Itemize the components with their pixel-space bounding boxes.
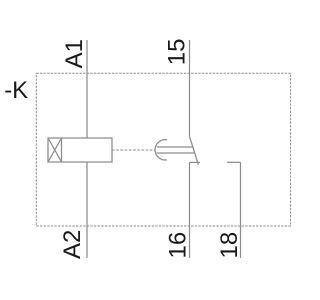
- contact 18 fixed bar: [227, 161, 241, 163]
- svg-text:15: 15: [164, 39, 191, 66]
- wire 15 lead: [189, 40, 191, 137]
- wire 18 lead: [240, 162, 242, 258]
- contact arm (switch, from 15): [190, 137, 199, 165]
- svg-text:18: 18: [216, 232, 243, 259]
- coil X diagonal 2: [48, 138, 62, 162]
- actuator link line bottom: [157, 152, 195, 154]
- coil X diagonal 1: [48, 138, 62, 162]
- svg-text:16: 16: [165, 232, 192, 259]
- wire A2 lead: [86, 162, 88, 258]
- wire 16 lead: [189, 162, 191, 258]
- svg-text:A1: A1: [61, 39, 88, 68]
- actuator link line top: [157, 146, 193, 148]
- relay outline -K (dashed enclosure): [36, 73, 290, 226]
- actuator arc: [155, 140, 167, 160]
- coil X-box divider: [61, 138, 63, 162]
- contact 16 fixed bar: [190, 161, 201, 163]
- mechanical link (dashed): [112, 149, 156, 151]
- svg-text:-K: -K: [4, 77, 28, 104]
- wire A1 lead: [86, 40, 88, 138]
- relay coil K (rectangle): [48, 138, 112, 162]
- svg-text:A2: A2: [59, 230, 86, 259]
